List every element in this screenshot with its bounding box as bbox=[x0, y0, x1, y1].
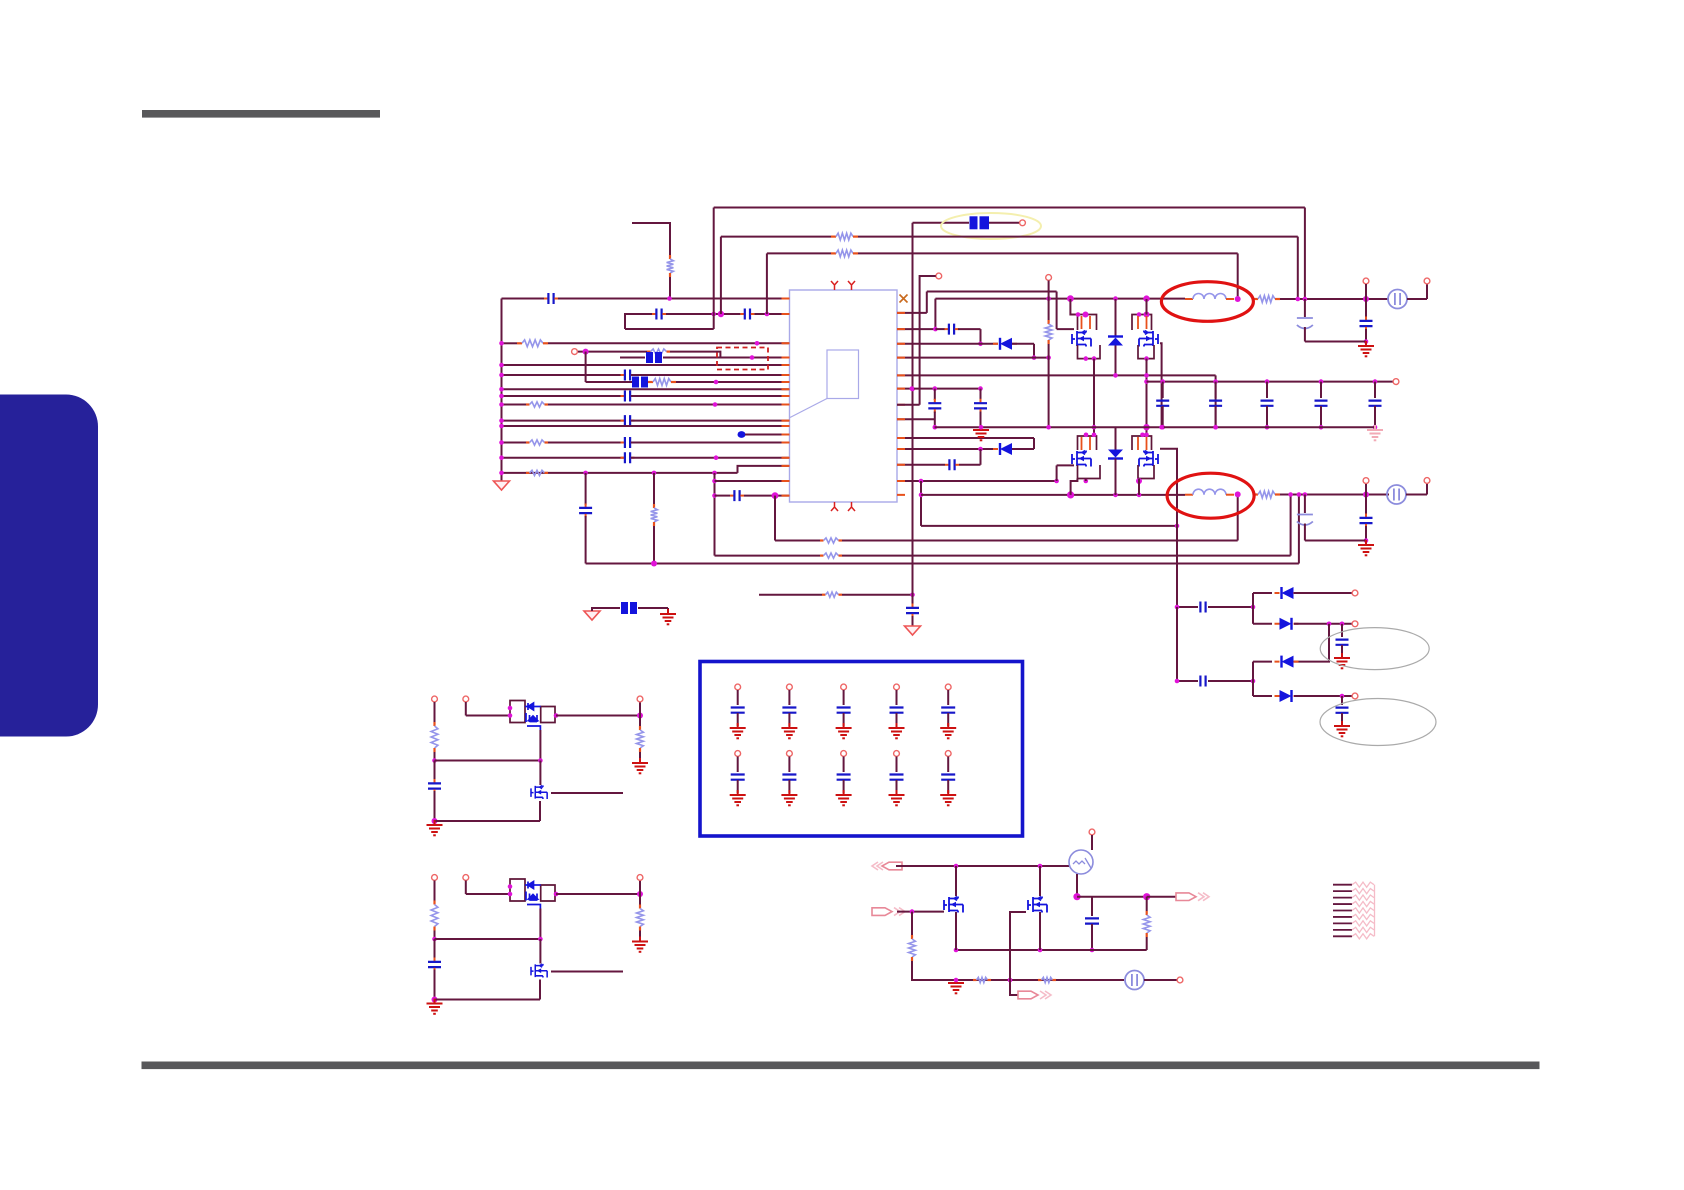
wire bbox=[1365, 299, 1367, 318]
capacitor C row2 bbox=[837, 775, 851, 780]
junction bbox=[554, 713, 559, 718]
junction bbox=[1319, 425, 1324, 430]
LS2 input terminal bbox=[432, 875, 438, 881]
wire bbox=[1341, 624, 1343, 637]
open terminal bbox=[1046, 275, 1052, 281]
junction bbox=[910, 387, 915, 392]
resistor R vertical bbox=[651, 504, 658, 526]
wire IC pin y329 bbox=[897, 328, 935, 330]
wire line y329 bbox=[625, 328, 714, 330]
junction on bus bbox=[499, 373, 504, 378]
IC left pin leads bbox=[782, 299, 790, 496]
ground LS1 bbox=[632, 758, 648, 773]
wire bbox=[1177, 680, 1198, 682]
junction bbox=[1235, 296, 1241, 302]
wire IC pin y405 bbox=[897, 404, 920, 406]
wire bbox=[842, 594, 913, 596]
resistor ladder lead bbox=[1333, 916, 1352, 918]
junction bbox=[1073, 893, 1080, 900]
resistor R bbox=[831, 250, 858, 257]
wire bbox=[434, 752, 436, 761]
wire bbox=[896, 713, 898, 726]
junction bbox=[1297, 492, 1302, 497]
mosfet QA glyph bbox=[944, 897, 963, 913]
ground bbox=[1334, 653, 1350, 668]
open terminal bbox=[1424, 278, 1430, 284]
wire bbox=[955, 912, 957, 950]
junction bbox=[1113, 296, 1118, 301]
junction on bus bbox=[499, 418, 504, 423]
junction bbox=[718, 311, 724, 317]
wire bbox=[631, 457, 790, 459]
mosfet Q2 glyph bbox=[1139, 331, 1158, 347]
wire bbox=[896, 865, 1069, 867]
resistor R bbox=[526, 402, 548, 407]
mosfet pack Q4 bottom bracket bbox=[1138, 465, 1154, 479]
diode D left bbox=[993, 338, 1017, 350]
wire line y343 bbox=[502, 342, 518, 344]
wire bbox=[1208, 606, 1253, 608]
wire line y396 bbox=[502, 395, 625, 397]
wire bbox=[896, 690, 898, 705]
power flag bbox=[905, 626, 921, 635]
junction bbox=[1159, 425, 1164, 430]
wire bbox=[737, 780, 739, 793]
resistor R bbox=[1038, 977, 1056, 982]
wire bbox=[435, 760, 541, 762]
wire bbox=[558, 298, 790, 300]
LS2 output terminal bbox=[637, 875, 643, 881]
wire IC pin y357 bbox=[897, 357, 1049, 359]
wire bbox=[1039, 866, 1041, 896]
wire line y472 bbox=[502, 472, 738, 474]
capacitor C bbox=[1085, 918, 1099, 923]
annotation ellipse red bbox=[1161, 282, 1253, 322]
wire bbox=[1091, 924, 1093, 950]
resistor R LS1 bbox=[431, 722, 438, 752]
connector arrow out bbox=[1176, 893, 1209, 901]
wire bbox=[1146, 359, 1148, 435]
transistor Q circle bbox=[1069, 850, 1093, 874]
capacitor C LS2 bbox=[428, 958, 441, 972]
mosfet LS1 Q2 glyph bbox=[531, 785, 547, 799]
wire left vertical bus bbox=[501, 299, 503, 482]
wire cap bank top bus bbox=[1147, 381, 1394, 383]
junction on bus bbox=[499, 394, 504, 399]
IC pin Y bottom bbox=[848, 502, 855, 511]
open terminal bbox=[936, 273, 942, 279]
resistor ladder body bbox=[1352, 921, 1374, 926]
junction bbox=[1213, 425, 1218, 430]
wire bbox=[653, 526, 655, 564]
junction bbox=[1140, 433, 1145, 438]
capacitor C bbox=[1336, 640, 1349, 645]
wire bbox=[1076, 874, 1078, 897]
mosfet pack LS1 left bracket bbox=[510, 701, 525, 723]
wire bbox=[1115, 346, 1117, 376]
junction on bus bbox=[499, 402, 504, 407]
mosfet pack LS2 right bracket bbox=[541, 885, 555, 901]
junction bbox=[978, 447, 983, 452]
wire bbox=[465, 702, 467, 716]
annotation ellipse gray bbox=[1320, 699, 1436, 746]
ferrite bead FB bbox=[621, 602, 637, 614]
wire bbox=[842, 540, 1238, 542]
ground bbox=[940, 790, 956, 805]
mosfet pack Q1 top bracket bbox=[1078, 315, 1097, 331]
junction bbox=[1303, 297, 1308, 302]
ground LS2 bbox=[632, 937, 648, 952]
wire line VIN y298 bbox=[502, 298, 545, 300]
wire bbox=[897, 911, 944, 913]
wire line y426 bbox=[502, 425, 790, 427]
resistor ladder lead bbox=[1333, 903, 1352, 905]
resistor ladder body bbox=[1352, 908, 1374, 913]
diode D bbox=[1275, 587, 1299, 599]
wire bbox=[737, 690, 739, 705]
ground bbox=[1334, 721, 1350, 736]
junction bbox=[432, 937, 437, 942]
junction bbox=[1144, 312, 1150, 318]
junction bbox=[1083, 312, 1089, 318]
top title bar bbox=[142, 110, 380, 118]
wire bbox=[639, 894, 641, 905]
wire bbox=[1407, 298, 1427, 300]
junction bbox=[755, 341, 760, 346]
wire bbox=[947, 780, 949, 793]
ground bbox=[836, 790, 852, 805]
wire bbox=[1374, 382, 1376, 398]
wire bbox=[638, 607, 668, 609]
wire stub bbox=[1365, 284, 1367, 299]
junction bbox=[1113, 373, 1118, 378]
resistor ladder lead bbox=[1333, 922, 1352, 924]
junction bbox=[954, 978, 959, 983]
mosfet pack Q3 top bracket bbox=[1078, 436, 1097, 450]
junction bbox=[1038, 948, 1043, 953]
junction on bus bbox=[499, 424, 504, 429]
resistor R LS2 bbox=[431, 901, 438, 931]
wire line y434 bbox=[745, 434, 790, 436]
wire bbox=[744, 495, 790, 497]
wire vertical x912 bbox=[912, 223, 914, 604]
wire gate stub bbox=[1057, 464, 1074, 466]
wire bus y556 bbox=[715, 555, 821, 557]
highlight ellipse yellow bbox=[941, 213, 1041, 239]
junction bbox=[651, 561, 657, 567]
mosfet QB glyph bbox=[1028, 897, 1047, 913]
junction bbox=[1213, 379, 1218, 384]
capacitor series C bbox=[621, 452, 635, 463]
wire bbox=[434, 931, 436, 940]
wire bus y540 bbox=[775, 540, 820, 542]
resistor ladder body bbox=[1352, 901, 1374, 906]
wire bbox=[669, 277, 671, 299]
ground bbox=[940, 723, 956, 738]
wire bbox=[858, 236, 1298, 238]
junction bbox=[1092, 425, 1097, 430]
open terminal bbox=[1352, 693, 1358, 699]
wire bbox=[434, 791, 436, 821]
wire bbox=[1177, 606, 1198, 608]
wire bbox=[435, 820, 541, 822]
cap bank B4 terminal bbox=[894, 751, 900, 757]
capacitor C bbox=[1336, 708, 1349, 713]
wire line y420 bbox=[502, 420, 625, 422]
ground bbox=[889, 790, 905, 805]
junction bbox=[432, 997, 438, 1003]
wire gate2 route bbox=[1160, 449, 1177, 607]
wire bbox=[1144, 979, 1177, 981]
wire line y357 bbox=[620, 357, 645, 359]
mosfet LS1 internal diode bbox=[525, 703, 541, 730]
junction bbox=[919, 479, 924, 484]
wire bbox=[434, 939, 436, 960]
wire top-left feed bbox=[632, 223, 670, 255]
wire bbox=[1426, 284, 1428, 299]
ground bbox=[1358, 341, 1374, 356]
wire bbox=[980, 449, 982, 465]
capacitor C row1 bbox=[941, 708, 955, 713]
resistor ladder bus bbox=[1374, 885, 1376, 937]
resistor R bbox=[973, 977, 991, 982]
mosfet pack LS2 left bracket bbox=[510, 879, 525, 901]
resistor ladder body bbox=[1352, 934, 1374, 939]
wire bbox=[639, 716, 641, 727]
wire diode line y344 bbox=[897, 343, 998, 345]
capacitor C row1 bbox=[782, 708, 796, 713]
wire bbox=[959, 464, 981, 466]
wire bbox=[912, 961, 1124, 980]
junction bbox=[554, 892, 559, 897]
ferrite bead FB bbox=[632, 377, 648, 388]
junction bbox=[1084, 433, 1089, 438]
mosfet pack Q2 bottom bracket bbox=[1138, 345, 1154, 359]
junction bbox=[1084, 479, 1089, 484]
junction bbox=[1363, 296, 1369, 302]
open terminal bbox=[1177, 977, 1183, 983]
junction bbox=[1137, 493, 1142, 498]
wire bbox=[1146, 897, 1148, 911]
wire mid line y375 bbox=[897, 374, 1216, 376]
junction bbox=[1067, 491, 1074, 498]
wire bbox=[989, 222, 1019, 224]
junction bbox=[1160, 379, 1165, 384]
resistor R bbox=[648, 379, 676, 386]
wire bbox=[912, 616, 914, 626]
wire bbox=[1304, 524, 1306, 541]
wire bbox=[631, 420, 790, 422]
wire bbox=[1298, 495, 1300, 564]
junction bbox=[1303, 492, 1308, 497]
diode D bbox=[1275, 656, 1299, 668]
no-connect X bbox=[900, 295, 908, 303]
wire bbox=[1215, 406, 1217, 427]
junction bbox=[1046, 425, 1051, 430]
wire bbox=[639, 752, 641, 761]
wire bbox=[435, 999, 541, 1001]
resistor R bbox=[909, 935, 916, 961]
junction bbox=[933, 386, 938, 391]
ground LS2 2 bbox=[427, 999, 443, 1014]
capacitor C decouple bbox=[974, 399, 987, 413]
blue group box bbox=[700, 662, 1023, 837]
cap bank B5 terminal bbox=[945, 751, 951, 757]
wire line y457 bbox=[502, 457, 625, 459]
wire stub bbox=[1365, 484, 1367, 495]
mosfet pack Q1 leads bbox=[1082, 316, 1091, 329]
junction bbox=[1265, 425, 1270, 430]
mosfet pack LS1 right bracket bbox=[541, 707, 555, 723]
junction bbox=[1092, 433, 1097, 438]
wire diode row1 bbox=[1253, 592, 1272, 594]
wire IC pin y419 bbox=[897, 418, 935, 420]
junction bbox=[1144, 379, 1149, 384]
wire bbox=[666, 313, 740, 315]
wire bbox=[1365, 329, 1367, 342]
wire line y404 bbox=[502, 404, 527, 406]
ground bbox=[973, 425, 989, 440]
cap bank A2 terminal bbox=[787, 684, 793, 690]
wire line y442 bbox=[502, 442, 527, 444]
junction bbox=[1373, 425, 1378, 430]
junction bbox=[1251, 605, 1256, 610]
resistor ladder lead bbox=[1333, 890, 1352, 892]
wire bbox=[1077, 896, 1147, 898]
junction bbox=[711, 312, 716, 317]
wire bbox=[774, 496, 776, 541]
wire bbox=[639, 702, 641, 716]
wire bbox=[896, 757, 898, 773]
junction on bus bbox=[499, 440, 504, 445]
ferrite bead FB big bbox=[970, 216, 990, 229]
wire bbox=[947, 757, 949, 773]
wire bbox=[1071, 479, 1078, 495]
wire bbox=[1304, 495, 1306, 514]
wire bbox=[1426, 484, 1428, 495]
junction bbox=[713, 402, 718, 407]
fuse F1 bbox=[1388, 290, 1407, 309]
wire bbox=[1085, 479, 1087, 482]
wire bbox=[955, 866, 957, 896]
wire bbox=[934, 299, 936, 330]
capacitor series C bbox=[544, 293, 558, 304]
capacitor C row2 bbox=[941, 775, 955, 780]
wire bbox=[663, 357, 790, 359]
capacitor C LS1 bbox=[428, 779, 441, 793]
wire LS2 gate drop bbox=[539, 909, 541, 940]
junction bbox=[432, 758, 437, 763]
mosfet pack Q2 leads bbox=[1138, 316, 1147, 329]
LS2 enable terminal bbox=[463, 875, 469, 881]
wire bbox=[653, 473, 655, 504]
junction bbox=[714, 380, 719, 385]
wire bbox=[713, 208, 715, 330]
wire bbox=[788, 690, 790, 705]
junction bbox=[910, 592, 915, 597]
wire bbox=[551, 792, 623, 794]
dashed highlight box bbox=[717, 348, 768, 370]
mosfet pack Q2 top bracket bbox=[1132, 315, 1152, 331]
wire bbox=[585, 352, 587, 382]
wire bbox=[1039, 912, 1041, 950]
wire bbox=[1320, 406, 1322, 427]
capacitor C row1 bbox=[890, 708, 904, 713]
wire IC pin y313 bbox=[897, 312, 927, 314]
junction bbox=[1136, 478, 1142, 484]
capacitor C decouple bbox=[928, 399, 941, 413]
wire LS1 gate drop bbox=[539, 730, 541, 761]
wire bbox=[1406, 494, 1427, 496]
fuse F bbox=[1125, 971, 1144, 990]
junction bbox=[1008, 978, 1013, 983]
junction bbox=[1113, 493, 1118, 498]
power flag below left bus bbox=[494, 481, 510, 490]
capacitor series C bbox=[1200, 602, 1205, 613]
wire bbox=[1294, 695, 1352, 697]
mosfet pack Q3 bottom bracket bbox=[1078, 465, 1101, 479]
junction bbox=[1296, 297, 1301, 302]
wire bbox=[1146, 937, 1148, 950]
wire bbox=[1215, 382, 1217, 398]
mosfet pack Q1 bottom bracket bbox=[1078, 345, 1101, 359]
wire bbox=[434, 761, 436, 782]
junction bbox=[1340, 694, 1345, 699]
wire bbox=[1266, 382, 1268, 398]
resistor R bbox=[1143, 911, 1150, 937]
wire bbox=[1176, 607, 1178, 681]
capacitor series C bbox=[621, 370, 635, 381]
power flag bbox=[584, 611, 600, 620]
open terminal bbox=[1089, 829, 1095, 835]
wire line y389 bbox=[502, 388, 790, 390]
junction bbox=[1288, 492, 1293, 497]
junction bbox=[712, 479, 717, 484]
capacitor electrolytic bbox=[1297, 515, 1313, 526]
open terminal bbox=[1424, 478, 1430, 484]
wire bbox=[539, 980, 541, 1000]
resistor R bbox=[822, 592, 842, 597]
junction bbox=[1038, 864, 1043, 869]
junction on bus bbox=[499, 471, 504, 476]
wire bbox=[1091, 835, 1093, 850]
wire bbox=[1252, 662, 1254, 696]
wire bbox=[980, 329, 982, 344]
wire bbox=[1305, 341, 1366, 343]
wire bbox=[858, 252, 1238, 254]
capacitor series C bbox=[945, 324, 959, 335]
junction bbox=[1143, 893, 1150, 900]
wire bbox=[1365, 495, 1367, 516]
mosfet LS2 internal diode bbox=[525, 882, 541, 909]
resistor ladder body bbox=[1352, 895, 1374, 900]
resistor ladder body bbox=[1352, 914, 1374, 919]
resistor R bbox=[517, 340, 548, 347]
resistor R vertical top-left bbox=[667, 255, 674, 277]
wire IC pin y389 bbox=[897, 388, 981, 390]
wire bbox=[551, 971, 623, 973]
wire bbox=[1341, 645, 1343, 656]
junction bbox=[954, 864, 959, 869]
wire pack feed bbox=[1070, 299, 1077, 315]
IC U1 inner pad bbox=[827, 350, 859, 399]
cap bank B3 terminal bbox=[841, 751, 847, 757]
junction bbox=[538, 758, 543, 763]
wire bbox=[1304, 327, 1306, 342]
capacitor series C bbox=[621, 415, 635, 426]
diode D bbox=[1275, 618, 1299, 630]
capacitor C row2 bbox=[890, 775, 904, 780]
